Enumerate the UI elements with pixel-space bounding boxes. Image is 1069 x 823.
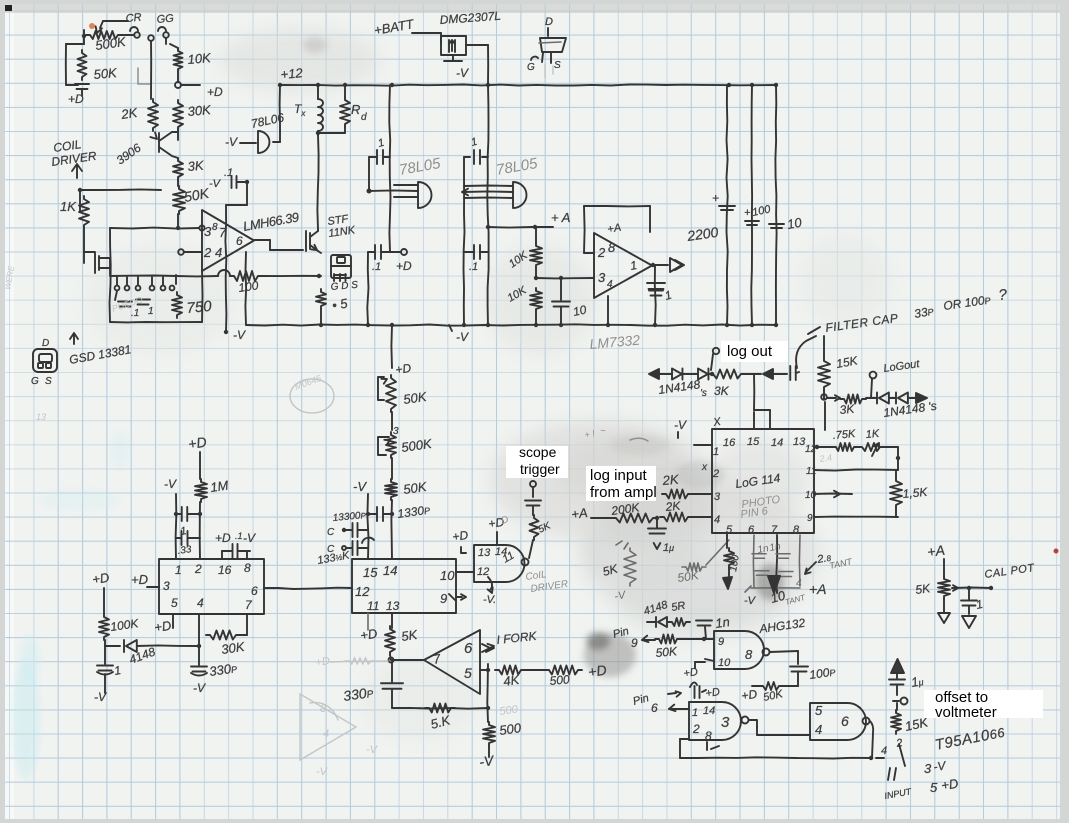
svg-text:+A: +A xyxy=(606,222,622,236)
svg-text:30K: 30K xyxy=(187,102,213,119)
svg-text:50K: 50K xyxy=(655,644,678,660)
svg-text:G: G xyxy=(527,62,535,73)
svg-text:d: d xyxy=(361,112,367,123)
svg-text:6: 6 xyxy=(251,584,258,598)
svg-text:11: 11 xyxy=(367,599,379,613)
svg-text:5: 5 xyxy=(930,780,938,795)
svg-text:CR: CR xyxy=(125,12,142,25)
svg-text:-V: -V xyxy=(225,135,238,149)
svg-text:S: S xyxy=(45,376,52,387)
svg-text:5: 5 xyxy=(171,596,178,610)
svg-text:6: 6 xyxy=(464,640,473,657)
svg-text:2K: 2K xyxy=(661,472,680,489)
svg-text:4: 4 xyxy=(215,245,222,260)
svg-text:12: 12 xyxy=(355,584,370,599)
svg-text:3: 3 xyxy=(393,426,399,437)
svg-text:.75K: .75K xyxy=(832,428,856,442)
svg-text:9: 9 xyxy=(807,513,813,524)
svg-text:1: 1 xyxy=(148,306,154,317)
svg-text:.1: .1 xyxy=(131,308,139,319)
svg-text:8: 8 xyxy=(745,647,753,662)
svg-text:11: 11 xyxy=(806,466,816,477)
svg-text:+: + xyxy=(744,207,751,219)
svg-text:8: 8 xyxy=(608,240,616,255)
svg-text:2.4: 2.4 xyxy=(818,452,833,464)
svg-text:4: 4 xyxy=(197,596,204,610)
svg-text:1K: 1K xyxy=(865,428,880,441)
svg-text:13: 13 xyxy=(386,599,400,613)
svg-text:500: 500 xyxy=(498,720,522,738)
svg-text:1: 1 xyxy=(713,446,719,458)
svg-text:10: 10 xyxy=(718,657,731,669)
svg-text:-V: -V xyxy=(233,328,246,342)
svg-text:3: 3 xyxy=(204,224,212,239)
svg-text:15: 15 xyxy=(747,436,760,448)
svg-text:-V: -V xyxy=(316,766,329,778)
svg-text:9: 9 xyxy=(440,591,447,606)
svg-text:4: 4 xyxy=(815,722,822,737)
svg-text:~: ~ xyxy=(600,426,606,437)
svg-text:-V: -V xyxy=(366,744,379,756)
svg-text:1,5K: 1,5K xyxy=(902,485,929,501)
svg-text:10: 10 xyxy=(805,490,817,501)
svg-text:+D: +D xyxy=(683,666,699,680)
svg-text:-V: -V xyxy=(94,690,107,704)
svg-text:9: 9 xyxy=(631,636,638,650)
svg-text:-V.: -V. xyxy=(483,594,496,606)
svg-text:1: 1 xyxy=(175,563,182,577)
svg-text:+D: +D xyxy=(587,662,607,680)
svg-text:2: 2 xyxy=(712,468,719,480)
svg-text:9: 9 xyxy=(718,636,724,648)
svg-text:.33: .33 xyxy=(177,544,193,557)
svg-text:+D: +D xyxy=(68,92,84,106)
svg-text:3: 3 xyxy=(924,761,932,776)
svg-text:4: 4 xyxy=(796,578,802,589)
svg-text:C: C xyxy=(327,527,335,538)
svg-text:8: 8 xyxy=(793,524,800,536)
svg-text:+D: +D xyxy=(705,686,721,700)
svg-text:+D: +D xyxy=(940,776,959,793)
svg-text:D: D xyxy=(42,338,49,349)
svg-text:15: 15 xyxy=(363,565,378,580)
svg-text:-V: -V xyxy=(744,595,757,607)
svg-text:1: 1 xyxy=(692,707,698,719)
svg-text:3: 3 xyxy=(163,579,170,593)
svg-text:+D: +D xyxy=(451,528,469,544)
svg-text:2: 2 xyxy=(597,245,606,260)
svg-text:1n: 1n xyxy=(714,614,730,631)
svg-text:+D: +D xyxy=(207,85,223,99)
svg-text:+D: +D xyxy=(153,618,172,635)
svg-text:1M: 1M xyxy=(209,478,229,495)
svg-text:+D: +D xyxy=(396,259,412,273)
svg-text:13: 13 xyxy=(478,547,491,559)
svg-text:10: 10 xyxy=(440,568,455,583)
svg-text:+D: +D xyxy=(315,655,331,669)
svg-text:14: 14 xyxy=(771,437,783,449)
svg-text:R: R xyxy=(351,102,360,117)
svg-text:-V: -V xyxy=(353,479,367,494)
svg-text:+D: +D xyxy=(131,572,148,587)
svg-text:2: 2 xyxy=(692,722,700,736)
svg-text:trigger: trigger xyxy=(520,461,560,477)
svg-text:8: 8 xyxy=(705,729,712,743)
svg-text:GG: GG xyxy=(156,13,175,26)
svg-text:D: D xyxy=(545,16,553,28)
svg-text:3K: 3K xyxy=(839,402,856,417)
svg-text:+D: +D xyxy=(740,687,758,703)
svg-text:3: 3 xyxy=(714,491,721,503)
svg-text:14: 14 xyxy=(703,705,715,717)
svg-text:+A: +A xyxy=(809,581,827,597)
svg-text:100: 100 xyxy=(237,278,259,295)
svg-text:500: 500 xyxy=(549,672,570,688)
svg-text:2K: 2K xyxy=(664,499,682,514)
svg-text:50K: 50K xyxy=(93,65,119,82)
svg-text:13: 13 xyxy=(36,412,46,422)
svg-text:2: 2 xyxy=(203,245,212,260)
svg-text:4: 4 xyxy=(881,745,887,757)
svg-text:voltmeter: voltmeter xyxy=(935,704,997,721)
svg-text:log input: log input xyxy=(590,467,648,484)
svg-text:750: 750 xyxy=(186,298,213,317)
svg-text:-V: -V xyxy=(456,66,469,80)
svg-text:2: 2 xyxy=(194,562,202,576)
svg-text:3: 3 xyxy=(721,714,730,731)
svg-text:5: 5 xyxy=(464,665,472,681)
svg-text:+D: +D xyxy=(91,570,110,587)
svg-text:-V: -V xyxy=(243,531,256,545)
svg-text:3K: 3K xyxy=(714,384,730,398)
svg-text:+ A: + A xyxy=(551,210,570,225)
svg-text:.1: .1 xyxy=(235,531,243,541)
svg-text:6: 6 xyxy=(841,713,849,729)
svg-text:+D: +D xyxy=(359,626,378,643)
svg-text:+A: +A xyxy=(926,542,946,560)
svg-text:16: 16 xyxy=(218,563,232,577)
svg-text:1K: 1K xyxy=(60,199,77,214)
svg-text:scope: scope xyxy=(519,444,557,460)
svg-text:.1: .1 xyxy=(372,261,381,273)
svg-text:6: 6 xyxy=(748,524,755,536)
svg-text:5: 5 xyxy=(815,703,823,718)
svg-text:4: 4 xyxy=(323,728,329,740)
svg-text:log out: log out xyxy=(727,343,773,360)
svg-text:-V: -V xyxy=(674,418,687,432)
svg-text:+A: +A xyxy=(570,505,588,522)
svg-text:+D: +D xyxy=(394,361,412,377)
svg-text:5K: 5K xyxy=(914,581,931,597)
svg-text:'s: 's xyxy=(700,388,707,399)
svg-text:4: 4 xyxy=(607,279,613,290)
svg-text:+D: +D xyxy=(187,434,207,452)
svg-text:6: 6 xyxy=(651,701,658,715)
svg-text:+D: +D xyxy=(215,531,231,545)
svg-text:4: 4 xyxy=(714,514,720,526)
svg-text:5R: 5R xyxy=(670,600,686,614)
svg-text:G: G xyxy=(31,376,39,387)
svg-text:3: 3 xyxy=(598,270,606,285)
svg-text:10K: 10K xyxy=(187,50,213,67)
svg-text:from ampl: from ampl xyxy=(590,484,657,501)
svg-text:3K: 3K xyxy=(187,158,205,174)
svg-text:8: 8 xyxy=(244,561,251,575)
svg-text:+: + xyxy=(712,191,719,205)
svg-text:S: S xyxy=(554,60,561,71)
svg-text:-V: -V xyxy=(164,477,177,491)
svg-text:8: 8 xyxy=(212,222,218,233)
svg-text:12: 12 xyxy=(805,444,817,455)
svg-text:16: 16 xyxy=(723,437,736,449)
svg-text:12: 12 xyxy=(477,566,489,578)
svg-text:.1: .1 xyxy=(469,261,478,273)
svg-text:1μ: 1μ xyxy=(663,542,674,554)
svg-text:-V: -V xyxy=(193,681,206,695)
svg-text:6: 6 xyxy=(236,234,243,248)
svg-text:-V: -V xyxy=(456,330,469,344)
svg-text:-V: -V xyxy=(209,178,222,190)
svg-text:x: x xyxy=(701,462,708,473)
svg-text:14: 14 xyxy=(383,563,397,578)
svg-text:+12: +12 xyxy=(280,65,304,82)
